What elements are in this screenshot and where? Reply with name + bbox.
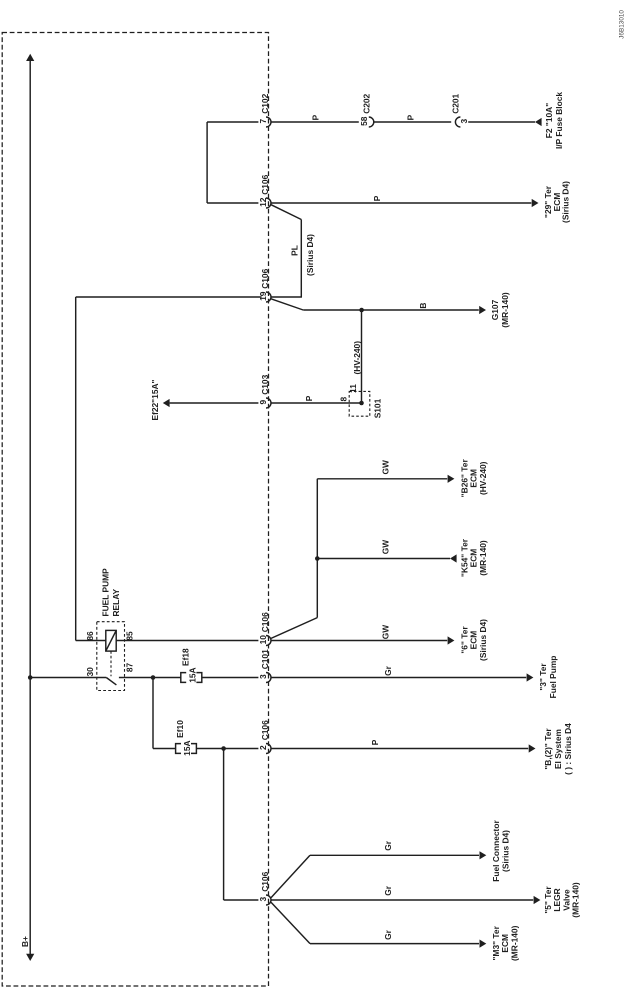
- splice S101 dashed box: [349, 391, 370, 416]
- relay coil U1 box: [106, 630, 116, 651]
- svg-text:"3" Ter: "3" Ter: [538, 663, 548, 691]
- connector C106 pin 19: [266, 292, 271, 302]
- arrow to LEGR valve: [534, 896, 541, 904]
- wire Gr to LEGR valve: [271, 899, 533, 901]
- svg-text:(Sirius D4): (Sirius D4): [500, 830, 510, 872]
- svg-text:(HV-240): (HV-240): [352, 341, 362, 375]
- connector C106 pin 12: [266, 198, 271, 208]
- svg-text:Gr: Gr: [383, 885, 393, 896]
- svg-text:(MR-140): (MR-140): [571, 882, 581, 918]
- wire GW to ECM K54: [317, 558, 450, 560]
- svg-text:J6B13010: J6B13010: [619, 10, 626, 39]
- wire relay 86 vertical: [75, 297, 77, 641]
- junction dot Ef18 line / Ef10 branch: [151, 675, 156, 680]
- svg-text:B+: B+: [20, 936, 30, 947]
- connector C106 pin 2: [266, 744, 271, 754]
- arrow to Ef22 fuse: [163, 399, 170, 407]
- svg-text:Ef18: Ef18: [180, 648, 190, 666]
- svg-text:3: 3: [258, 897, 268, 902]
- svg-text:58: 58: [359, 116, 369, 126]
- arrow to ECM B26: [448, 475, 455, 483]
- svg-text:7: 7: [258, 119, 268, 124]
- relay switch blade: [106, 678, 116, 685]
- svg-text:(Sirius D4): (Sirius D4): [561, 181, 571, 223]
- wire C102 to C202: [271, 121, 359, 123]
- wire B diagonal from C106-19: [271, 299, 303, 310]
- svg-text:FUEL PUMP: FUEL PUMP: [100, 568, 110, 617]
- wire Gr diagonal to ECM M3: [271, 902, 310, 943]
- svg-text:I/P Fuse Block: I/P Fuse Block: [554, 92, 564, 149]
- svg-text:Fuel Pump: Fuel Pump: [548, 656, 558, 699]
- wire C202 to C201: [373, 121, 451, 123]
- svg-text:F2 "10A": F2 "10A": [544, 103, 554, 138]
- svg-text:G107: G107: [490, 299, 500, 320]
- svg-text:EI System: EI System: [553, 729, 563, 769]
- svg-text:GW: GW: [380, 625, 390, 640]
- wire relay 85 to connector C106-10: [116, 640, 258, 642]
- svg-text:30: 30: [85, 667, 95, 677]
- arrow into circuit from F2: [535, 118, 542, 126]
- svg-text:GW: GW: [380, 460, 390, 475]
- svg-text:"B,(2)" Ter: "B,(2)" Ter: [543, 728, 553, 770]
- svg-text:S101: S101: [372, 398, 382, 418]
- connector C102: [266, 117, 271, 127]
- svg-text:87: 87: [125, 663, 135, 673]
- connector C201: [455, 117, 460, 127]
- svg-text:P: P: [304, 395, 314, 401]
- wire P from C103 to splice S101: [271, 402, 362, 404]
- arrow to ECM 6: [448, 636, 455, 644]
- wire Gr to ECM M3: [310, 943, 479, 945]
- arrow to fuel pump: [527, 673, 534, 681]
- svg-text:86: 86: [85, 631, 95, 641]
- svg-text:2: 2: [258, 745, 268, 750]
- wire Gr to fuel connector: [310, 854, 479, 856]
- svg-text:C102: C102: [260, 93, 270, 113]
- wire to connector C106-3: [224, 899, 259, 901]
- svg-text:Gr: Gr: [383, 840, 393, 851]
- relay dashed box: [97, 622, 125, 691]
- junction dot Ef10 line / 3C106 branch: [221, 746, 226, 751]
- svg-text:B: B: [418, 303, 428, 309]
- svg-text:( ) : Sirius D4: ( ) : Sirius D4: [563, 723, 573, 775]
- wire relay coil 86 lead: [76, 640, 106, 642]
- wire C201 to fuse block: [468, 121, 535, 123]
- wire branch down to Ef10: [152, 678, 154, 749]
- connector C106 pin 10: [266, 636, 271, 646]
- svg-text:Gr: Gr: [383, 929, 393, 940]
- svg-text:15A: 15A: [182, 740, 192, 755]
- svg-text:C106: C106: [260, 174, 270, 194]
- arrow to EI system: [529, 744, 536, 752]
- svg-text:C106: C106: [260, 612, 270, 632]
- wire GW to ECM B26: [317, 478, 447, 480]
- relay coil diagonal: [106, 630, 116, 651]
- connector C101: [266, 673, 271, 683]
- wire P to ECM 29: [271, 202, 531, 204]
- svg-text:C106: C106: [260, 268, 270, 288]
- svg-text:C106: C106: [260, 871, 270, 891]
- junction dot B+ bus / relay 30 wire: [28, 675, 33, 680]
- svg-text:(MR-140): (MR-140): [478, 540, 488, 576]
- junction dot splice S101: [359, 401, 364, 406]
- svg-text:C202: C202: [362, 93, 372, 113]
- svg-text:GW: GW: [380, 540, 390, 555]
- svg-text:C101: C101: [260, 649, 270, 669]
- svg-text:Gr: Gr: [383, 665, 393, 676]
- arrow to ECM 29: [532, 199, 539, 207]
- svg-text:85: 85: [125, 631, 135, 641]
- wire Gr to fuel pump: [271, 677, 526, 679]
- fuse Ef10: [176, 744, 181, 754]
- B+ bus wire: [29, 61, 31, 955]
- svg-text:(MR-140): (MR-140): [509, 925, 519, 961]
- svg-text:(Sirius D4): (Sirius D4): [305, 234, 315, 276]
- wire to fuse Ef10: [153, 748, 176, 750]
- connector C202: [369, 117, 374, 127]
- wire relay 87 to fuse Ef18: [119, 677, 181, 679]
- svg-text:C106: C106: [260, 720, 270, 740]
- connector C106 pin 3: [266, 895, 271, 905]
- svg-text:Ef22"15A": Ef22"15A": [150, 379, 160, 420]
- wire GW to ECM 6: [271, 640, 447, 642]
- wire to connector C106-12: [207, 202, 258, 204]
- junction dot GW / K54 branch: [315, 556, 320, 561]
- svg-text:8: 8: [339, 397, 349, 402]
- svg-text:P: P: [372, 195, 382, 201]
- arrow to fuel connector: [480, 851, 487, 859]
- harness boundary dashed box (engine room harness): [2, 33, 268, 987]
- connector C103: [266, 398, 271, 408]
- svg-text:(HV-240): (HV-240): [478, 461, 488, 495]
- wire P to EI system: [271, 748, 528, 750]
- arrow up (bus continuation): [26, 54, 34, 61]
- wire to connector C102: [207, 121, 258, 123]
- wire Gr diagonal to fuel connector: [271, 855, 310, 897]
- wire C102 feed vertical link: [206, 122, 208, 203]
- wire Ef22 to connector C103: [170, 402, 259, 404]
- svg-text:15A: 15A: [187, 667, 197, 682]
- svg-text:P: P: [406, 114, 416, 120]
- arrow from ECM K54: [450, 554, 457, 562]
- wire 19C106 to relay 86 horizontal: [76, 296, 262, 298]
- wire GW diagonal from C106-10: [271, 618, 317, 639]
- svg-text:P: P: [370, 739, 380, 745]
- wire Ef10 to connector C106-2: [196, 748, 258, 750]
- wire branch down to C106-3: [223, 749, 225, 901]
- wire B to G107: [303, 309, 479, 311]
- wire PL vertical: [300, 220, 302, 298]
- svg-text:PL: PL: [289, 245, 299, 256]
- fuse Ef18: [181, 673, 186, 683]
- svg-text:9: 9: [258, 400, 268, 405]
- wire relay 30 lead from B+ bus: [30, 677, 106, 679]
- svg-text:Ef10: Ef10: [175, 720, 185, 738]
- svg-text:3: 3: [258, 674, 268, 679]
- wire Ef18 to connector C101: [202, 677, 259, 679]
- svg-text:C103: C103: [260, 374, 270, 394]
- arrow to G107: [479, 306, 486, 314]
- svg-text:3: 3: [459, 119, 469, 124]
- arrow down to B+: [26, 954, 34, 961]
- junction dot B wire / S101 branch: [359, 308, 364, 313]
- svg-text:(Sirius D4): (Sirius D4): [478, 619, 488, 661]
- arrow to ECM M3: [480, 940, 487, 948]
- wire (HV-240) vertical from B wire to S101: [361, 310, 363, 403]
- wire PL horizontal into C106-19: [271, 296, 302, 298]
- svg-text:(MR-140): (MR-140): [500, 292, 510, 328]
- wire PL diagonal from C106-12: [271, 205, 301, 220]
- svg-text:RELAY: RELAY: [111, 588, 121, 616]
- svg-text:P: P: [311, 114, 321, 120]
- wire GW vertical: [316, 479, 318, 618]
- svg-text:C201: C201: [451, 93, 461, 113]
- relay mechanical link dashed: [110, 651, 112, 676]
